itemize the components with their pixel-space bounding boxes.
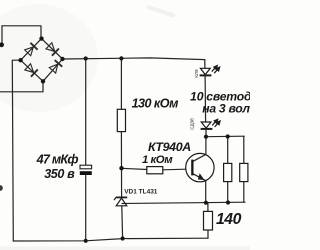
node right vertex of bridge <box>60 57 64 61</box>
node collector junction <box>204 135 208 139</box>
wire top plus rail <box>63 58 205 60</box>
capacitor C1 bottom plate <box>80 171 92 175</box>
node emitter / mid rail junction <box>204 201 208 205</box>
resistor R4 parallel right <box>240 163 248 181</box>
node plus rail / 130k junction <box>119 56 123 60</box>
LED HL1 emission arrows <box>212 66 220 74</box>
capacitor C1 47uF top plate <box>80 165 92 169</box>
resistor R3 parallel left <box>224 163 232 181</box>
bridge edge BR <box>43 59 63 81</box>
wire bottom minus rail <box>13 238 208 241</box>
node base node junction <box>119 166 123 170</box>
svg-text:КТ940А: КТ940А <box>148 140 191 154</box>
wire collector inside transistor <box>193 137 206 162</box>
wire TL431 anode down to minus rail <box>121 206 124 239</box>
transistor Q1 emitter with arrow <box>193 174 206 181</box>
transistor Q1 base bar <box>191 160 193 176</box>
wire parallel resistor 1 top lead <box>227 137 229 164</box>
node left vertex of bridge <box>18 58 22 62</box>
node AC terminal dot <box>0 42 4 47</box>
svg-text:47 мКф: 47 мКф <box>36 152 79 166</box>
node parallel resistors top junction <box>226 134 230 138</box>
svg-text:на 3 вольта: на 3 вольта <box>202 102 250 116</box>
LED HL2 <box>201 122 213 129</box>
wire AC input top <box>2 26 41 39</box>
node bottom vertex of bridge <box>41 79 45 83</box>
transistor Q1 KT940A circle <box>186 153 214 181</box>
diode VD1 TL431 symbol <box>114 197 127 205</box>
wire parallel resistor 2 bottom lead <box>243 182 245 203</box>
diode VD-d (bottom-right edge of bridge) <box>49 60 63 73</box>
LED HL2 emission arrows <box>212 119 220 127</box>
svg-text:СД3б: СД3б <box>190 118 195 130</box>
wire base node to 1k resistor <box>122 168 148 169</box>
node plus rail / capacitor junction <box>84 56 88 60</box>
wire 1k resistor to base <box>163 168 186 171</box>
resistor R1 130 kOm <box>117 109 125 131</box>
wire 130k bottom to base node <box>120 132 122 169</box>
bridge edge TR <box>42 39 63 59</box>
wire capacitor branch lower <box>85 175 87 241</box>
resistor R2 1 kOm <box>147 167 163 174</box>
wire LED chain top lead <box>204 60 206 69</box>
node left edge lower terminal mark <box>0 185 3 191</box>
wire bridge bottom vertex AC2 to left edge <box>0 81 43 92</box>
wire parallel resistor 1 bottom lead <box>227 182 229 203</box>
svg-text:130 кОм: 130 кОм <box>132 97 180 111</box>
LED HL1 <box>200 68 212 75</box>
svg-text:VD1 TL431: VD1 TL431 <box>124 189 158 196</box>
node minus rail / capacitor junction <box>84 239 88 243</box>
bridge edge LT <box>21 39 42 61</box>
node mid rail / parallel resistor junction <box>226 200 230 204</box>
wire 130k branch upper <box>120 58 122 109</box>
wire between LED1 and LED2 <box>204 76 207 122</box>
diode VD-b (top-right edge of bridge) <box>45 42 58 56</box>
wire AC terminal stub <box>1 26 3 44</box>
wire collector node rail to parallel resistors <box>206 135 244 138</box>
diode VD-c (left-bottom edge of bridge) <box>24 63 37 77</box>
node top vertex of bridge <box>39 36 43 40</box>
diode VD-a (left-top edge of bridge) <box>24 43 38 56</box>
svg-text:350 в: 350 в <box>44 167 75 181</box>
svg-text:КЛ9: КЛ9 <box>194 69 199 78</box>
wire LED2 to collector node <box>205 130 207 137</box>
wire bridge left vertex to minus rail <box>12 60 20 241</box>
bridge edge LB <box>21 60 43 81</box>
resistor R5 140 <box>204 211 213 230</box>
wire 140 resistor top lead <box>207 203 209 212</box>
svg-text:140: 140 <box>216 211 242 228</box>
svg-text:1 кОм: 1 кОм <box>142 154 173 166</box>
wire mid rail (TL431 anode / emitter bus) <box>122 202 245 203</box>
wire capacitor branch upper <box>85 59 87 166</box>
node minus rail / TL431 junction <box>121 236 125 240</box>
wire parallel resistor 2 top lead <box>243 136 245 163</box>
wire 140 resistor bottom lead <box>207 230 209 238</box>
wire base node down to TL431 <box>121 168 123 197</box>
wire emitter lead <box>205 180 207 202</box>
